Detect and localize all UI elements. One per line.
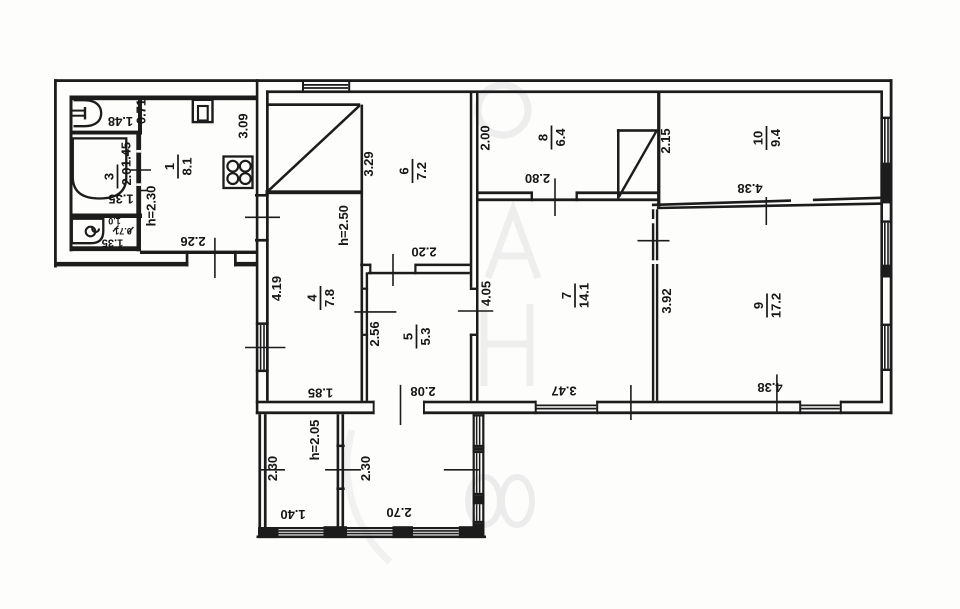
svg-text:1.85: 1.85 [308, 386, 333, 401]
svg-text:10: 10 [751, 131, 766, 145]
svg-text:4.05: 4.05 [478, 281, 493, 306]
closet1 diagonal [269, 106, 360, 191]
svg-text:1.0: 1.0 [108, 216, 121, 226]
wall 4|5 left line (hall divider) [361, 105, 364, 401]
svg-text:4.19: 4.19 [269, 276, 284, 301]
wall: bath compartment right wall [136, 135, 141, 216]
window bottom wall room7 [535, 401, 537, 415]
wall: veranda left outer line [258, 414, 261, 537]
wall: sink compartment right wall [137, 214, 142, 252]
door jambs main-to-veranda doorway [373, 401, 375, 415]
svg-text:3.09: 3.09 [235, 113, 250, 138]
label room 3 (bathroom) 3/2.0 [102, 165, 135, 189]
window W2 right wall [880, 220, 892, 222]
tick 4.05 [458, 310, 493, 312]
wall: right exterior outer line [890, 79, 893, 414]
pier veranda right 2 [473, 495, 485, 502]
watermark circle pair [468, 477, 500, 525]
wall 6|8 and 5|7 left line [470, 92, 473, 288]
svg-text:1.45: 1.45 [118, 142, 133, 167]
door jambs room8 door [531, 191, 533, 201]
wall: veranda right inner line [473, 414, 475, 537]
fixture: toilet bowl [74, 100, 102, 126]
wall: main left inner line [266, 90, 269, 400]
tick 1.45 [130, 169, 152, 171]
svg-text:1: 1 [162, 163, 177, 170]
label room 8 8/6.4 [536, 126, 569, 150]
fixture: toilet tank [73, 110, 85, 112]
wall: bathroom bottom partition [70, 246, 140, 251]
tick 2.0 bath [137, 190, 148, 192]
wall: right exterior inner line [880, 90, 883, 403]
wall: closet2 top line [617, 129, 659, 132]
svg-text:2.30: 2.30 [265, 456, 280, 481]
wall 7|9 left line [652, 209, 654, 219]
svg-text:3.92: 3.92 [659, 288, 674, 313]
wall: bathroom top partition / annex inner top line [70, 96, 257, 101]
window veranda bottom 3 [413, 530, 459, 532]
svg-text:h=2.30: h=2.30 [143, 186, 158, 227]
wall: room5/room6 divider upper line [360, 264, 371, 267]
svg-text:9.4: 9.4 [768, 128, 783, 147]
svg-text:6.4: 6.4 [553, 128, 568, 147]
svg-text:4.38: 4.38 [737, 181, 762, 196]
wall: veranda right outer line [482, 414, 484, 537]
watermark ring top [478, 85, 528, 135]
svg-text:0.71: 0.71 [133, 99, 148, 124]
svg-text:7: 7 [559, 292, 574, 299]
svg-text:2.70: 2.70 [386, 505, 411, 520]
wall 10|9 upper line [652, 201, 791, 205]
svg-text:1.35: 1.35 [108, 192, 133, 207]
wall pier right (between W2 W3) [880, 267, 892, 278]
svg-text:4.38: 4.38 [757, 380, 782, 395]
wall: veranda bottom inner line [258, 527, 484, 529]
label room 7 7/14.1 [559, 283, 592, 308]
window: vent block in top wall [302, 81, 304, 91]
window bottom wall room9 [799, 401, 801, 415]
svg-text:h=2.05: h=2.05 [307, 420, 322, 461]
window veranda right C [473, 502, 485, 504]
wall: closet1 bottom [266, 190, 362, 194]
svg-text:3.29: 3.29 [361, 151, 376, 176]
pier veranda bottom mid2 [393, 526, 414, 538]
fixture: boiler [193, 100, 213, 122]
tick 2.30 left [260, 469, 285, 471]
svg-text:2.56: 2.56 [367, 321, 382, 346]
wall: toilet compartment right wall [138, 96, 142, 135]
tick 2.08 [400, 385, 402, 425]
svg-text:8: 8 [536, 134, 551, 141]
svg-text:2.20: 2.20 [411, 245, 436, 260]
wall: top exterior inner line (main) [266, 90, 881, 93]
svg-text:7.2: 7.2 [414, 162, 429, 180]
tick 2.70 right [444, 469, 480, 471]
wall: veranda bottom outer line [257, 536, 487, 539]
window W3 right wall [880, 324, 892, 326]
label room 9 9/17.2 [751, 293, 784, 318]
tick 4.19 lower [245, 347, 285, 349]
tick 2.30 mid [325, 469, 361, 471]
wall: left exterior (annex) [54, 79, 57, 267]
pier veranda right [473, 447, 485, 451]
wall: closet2 left line [617, 129, 620, 198]
watermark letter N [484, 304, 530, 386]
svg-text:1.48: 1.48 [108, 114, 133, 129]
tick 2.26 [214, 238, 216, 278]
label room 4 4/7.8 [305, 286, 338, 310]
tick 2.56 [354, 311, 396, 313]
svg-text:2.0: 2.0 [119, 167, 134, 185]
wall: veranda left inner line [264, 414, 267, 537]
svg-text:1.40: 1.40 [280, 507, 305, 522]
wall: bath compartment bottom divider [70, 214, 143, 219]
door caps room5-room7 door [470, 288, 479, 290]
door caps room4-room5 doorway [361, 288, 369, 290]
svg-text:2.80: 2.80 [525, 171, 550, 186]
door notches bath right wall [136, 150, 141, 153]
svg-text:2.26: 2.26 [180, 234, 205, 249]
wall: bathroom left frame line [70, 96, 73, 252]
wall: room5/room6 divider lower line [368, 272, 470, 275]
wall: annex bottom lower line [56, 262, 188, 267]
svg-text:2.15: 2.15 [658, 128, 673, 153]
svg-text:5: 5 [401, 333, 416, 340]
svg-text:4: 4 [305, 294, 320, 302]
label room 6 6/7.2 [397, 159, 430, 183]
wall: toilet compartment divider [70, 131, 143, 135]
wall: room8 bottom upper line [477, 191, 532, 194]
wall 10|9 lower line [657, 204, 883, 208]
svg-text:3: 3 [102, 173, 117, 180]
tick 3.92 [638, 240, 670, 242]
wall: closet1 top line [268, 103, 361, 106]
svg-text:2.30: 2.30 [358, 456, 373, 481]
wall: top exterior outer line [54, 79, 893, 82]
fixture: bathtub [73, 138, 127, 198]
wall closet2|room10 [657, 92, 660, 207]
svg-text:6: 6 [397, 167, 412, 174]
door jambs room5 north door [369, 264, 371, 275]
pier veranda bottom mid1 [324, 526, 348, 538]
wall 7|9 right line [656, 209, 658, 260]
svg-text:17.2: 17.2 [769, 293, 784, 318]
wall 4|5 right line [366, 272, 368, 401]
pier veranda bottom right corner [459, 526, 485, 538]
wall 6|8 and 5|7 right line [476, 92, 479, 401]
wall: annex bottom upper line [140, 251, 256, 254]
tick 3.47 [630, 385, 632, 420]
wall pier right (between W1 W2) [880, 165, 892, 203]
svg-text:2.00: 2.00 [477, 125, 492, 150]
pier veranda right corner [473, 523, 485, 538]
wall: main bottom outer line [256, 411, 375, 414]
door jambs annex back door [186, 251, 189, 267]
window veranda bottom 2 [347, 530, 393, 532]
window veranda right B [473, 451, 485, 453]
fixture: wash basin [72, 219, 104, 244]
window veranda bottom 1 [279, 530, 324, 532]
wall: veranda partition [337, 414, 340, 528]
closet2 diagonal [619, 131, 657, 197]
svg-text:8.1: 8.1 [180, 157, 195, 175]
label room 1 (kitchen) 1/8.1 [162, 155, 195, 179]
svg-text:h=2.50: h=2.50 [336, 205, 351, 246]
pier veranda bottom left corner [258, 527, 279, 538]
watermark letter A [488, 210, 538, 278]
label room 10 10/9.4 [751, 126, 784, 150]
window left wall [256, 322, 269, 325]
watermark faint arc [347, 430, 390, 562]
tick 2.20 [392, 254, 394, 286]
wall: room8 bottom lower line [477, 198, 659, 201]
fixture: stove [224, 157, 253, 189]
svg-text:3.47: 3.47 [551, 384, 576, 399]
window W1 right wall [880, 117, 892, 119]
svg-text:0.71: 0.71 [114, 226, 132, 236]
svg-text:7.8: 7.8 [322, 289, 337, 307]
door caps veranda partition [336, 445, 344, 448]
label room 5 5/5.3 [401, 325, 434, 349]
tick kitchen door [245, 216, 280, 218]
tick marks sink [113, 226, 119, 232]
svg-text:5.3: 5.3 [418, 327, 433, 345]
svg-text:14.1: 14.1 [577, 283, 592, 308]
tick 4.38 top [765, 197, 767, 225]
tick 4.38 bottom [776, 374, 778, 413]
svg-text:2.08: 2.08 [410, 384, 435, 399]
door caps kitchen doorway in main left wall [255, 194, 269, 197]
svg-text:1.35: 1.35 [102, 237, 123, 249]
tick 2.80 [554, 178, 556, 216]
window veranda right A [473, 414, 485, 416]
wall: main bottom inner line [256, 401, 375, 404]
svg-text:9: 9 [751, 302, 766, 309]
wall: main left outer line [256, 79, 259, 414]
